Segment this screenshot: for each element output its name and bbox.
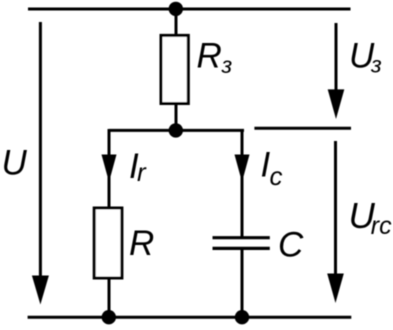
svg-text:r: r [137, 157, 147, 187]
svg-text:з: з [221, 52, 233, 78]
svg-text:rc: rc [371, 212, 392, 240]
svg-text:з: з [370, 51, 382, 77]
svg-text:U: U [2, 144, 28, 183]
svg-text:c: c [270, 161, 283, 191]
svg-text:R: R [197, 37, 222, 76]
svg-text:R: R [129, 224, 154, 263]
svg-text:C: C [278, 226, 304, 265]
